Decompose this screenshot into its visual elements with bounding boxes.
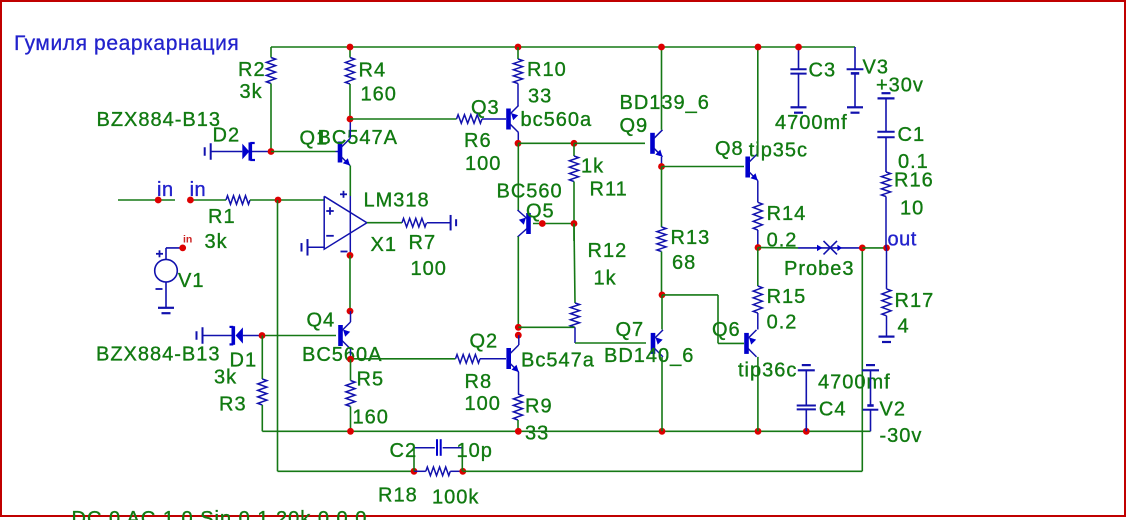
svg-text:160: 160 xyxy=(353,407,389,429)
inverted ground above C1 xyxy=(882,92,891,94)
node R12 wire left junction xyxy=(515,324,522,331)
resistor R15 xyxy=(757,248,759,287)
svg-text:R12: R12 xyxy=(588,240,628,262)
node R14 bottom / R15 top xyxy=(755,244,762,251)
node Q9 emitter / Q8 base xyxy=(658,163,665,170)
wire R6 to Q3 base xyxy=(350,118,457,120)
wire R11 top to Q9 base xyxy=(574,142,645,144)
diode D2 (zener BZX884-B13) xyxy=(210,143,212,160)
svg-text:1k: 1k xyxy=(594,267,617,289)
node D2 cathode / Q1 base xyxy=(268,148,275,155)
wire Q8 collector up to rail xyxy=(757,47,759,154)
node V1 plus xyxy=(179,245,186,252)
svg-text:Q3: Q3 xyxy=(471,97,500,119)
svg-text:4: 4 xyxy=(898,316,910,338)
node C4 bottom xyxy=(803,428,810,435)
wire Q4 collector down xyxy=(350,349,352,359)
transistor Q3 bc560a (PNP) xyxy=(506,109,511,130)
wire Q9 emitter down xyxy=(661,157,663,167)
node out xyxy=(883,245,890,252)
wire Q9 collector up to rail xyxy=(661,47,663,130)
capacitor C2 xyxy=(436,439,438,456)
node Q4 emitter xyxy=(347,308,354,315)
node rail Q9 xyxy=(658,44,665,51)
svg-text:BD140_6: BD140_6 xyxy=(604,345,694,367)
wire R1 to op-amp input junction xyxy=(250,199,324,201)
wire +30 top rail xyxy=(271,46,855,48)
svg-text:R1: R1 xyxy=(208,206,236,228)
wire Q1 emitter to op-amp V+ pin xyxy=(349,166,351,197)
svg-text:0.2: 0.2 xyxy=(767,312,798,334)
wire Q2 emitter to R9 xyxy=(518,372,520,394)
svg-text:R4: R4 xyxy=(359,60,387,82)
svg-text:10: 10 xyxy=(900,198,924,220)
svg-text:BC560A: BC560A xyxy=(302,344,383,366)
svg-text:68: 68 xyxy=(672,252,696,274)
node op-amp V- pin xyxy=(347,252,354,259)
svg-text:BC560: BC560 xyxy=(497,181,563,203)
inverted ground above V2 xyxy=(866,364,875,366)
svg-text:C3: C3 xyxy=(809,60,837,82)
resistor R7 xyxy=(402,218,427,227)
svg-text:R3: R3 xyxy=(219,394,247,416)
node R11 top xyxy=(571,140,578,147)
battery V2 -30v xyxy=(870,370,872,405)
svg-text:R16: R16 xyxy=(894,169,934,191)
svg-text:100k: 100k xyxy=(432,487,479,509)
svg-text:3k: 3k xyxy=(240,81,263,103)
node R13 bottom xyxy=(659,292,666,299)
node R5 bottom xyxy=(347,428,354,435)
node Q7 collector bottom xyxy=(659,428,666,435)
svg-text:D2: D2 xyxy=(213,125,241,147)
wire R13 bottom to Q6 base corner xyxy=(662,294,718,296)
svg-text:R2: R2 xyxy=(238,59,266,81)
wire D2 node to Q1 base xyxy=(271,151,336,153)
wire op-amp output xyxy=(367,222,402,224)
wire feedback row left xyxy=(278,470,415,472)
wire gnd to C1 xyxy=(885,98,887,131)
svg-text:R5: R5 xyxy=(357,369,385,391)
svg-text:BD139_6: BD139_6 xyxy=(620,92,710,114)
svg-text:R18: R18 xyxy=(378,485,418,507)
terminal R7 right xyxy=(450,215,452,231)
svg-text:V1: V1 xyxy=(178,270,204,292)
svg-text:in: in xyxy=(190,179,207,201)
wire Q9 emitter node down to R13 xyxy=(661,167,663,228)
svg-text:in: in xyxy=(157,179,174,201)
ground R17 xyxy=(879,336,895,338)
svg-text:Q2: Q2 xyxy=(470,331,499,353)
svg-text:100: 100 xyxy=(465,393,501,415)
svg-text:160: 160 xyxy=(361,84,397,106)
transistor Q4 BC560A (PNP) xyxy=(338,325,343,346)
svg-text:BC547A: BC547A xyxy=(318,127,399,149)
node rail C3 xyxy=(795,44,802,51)
wire input segment A xyxy=(118,199,175,201)
node R9 bottom xyxy=(515,428,522,435)
svg-text:Bc547a: Bc547a xyxy=(521,350,595,372)
capacitor C1 xyxy=(877,131,894,133)
op-amp X1 LM318 xyxy=(324,196,367,249)
wire R2 to D2 node xyxy=(270,84,272,152)
wire Q2 collector up xyxy=(518,335,520,345)
svg-text:tip36c: tip36c xyxy=(738,359,797,381)
wire D1 node to R3 xyxy=(261,336,263,380)
wire Q5 base xyxy=(533,223,574,225)
svg-text:Q9: Q9 xyxy=(620,115,649,137)
svg-text:C4: C4 xyxy=(819,399,847,421)
node Q3 collector xyxy=(515,140,522,147)
capacitor C2 branch left xyxy=(413,448,415,472)
node Q4 collector xyxy=(347,356,354,363)
op-amp inverting input terminal xyxy=(308,246,325,248)
capacitor C3 xyxy=(798,47,800,69)
svg-text:3k: 3k xyxy=(214,367,237,389)
resistor R10 xyxy=(517,47,519,59)
svg-text:BZX884-B13: BZX884-B13 xyxy=(97,109,222,131)
node input junction xyxy=(275,197,282,204)
capacitor C4 xyxy=(805,370,807,405)
node probe right / feedback column xyxy=(859,245,866,252)
resistor R13 xyxy=(657,227,666,252)
wire input junction down to feedback row xyxy=(277,200,279,471)
ground V1 xyxy=(158,307,174,309)
resistor R1 xyxy=(226,196,250,205)
node R18 left xyxy=(411,468,418,475)
inverted ground above C4 xyxy=(802,364,811,366)
node R18 right xyxy=(459,468,466,475)
resistor R5 xyxy=(350,359,352,380)
wire R12 bottom lead down xyxy=(574,327,576,343)
svg-text:Q4: Q4 xyxy=(307,310,336,332)
svg-text:Гумиля реаркарнация: Гумиля реаркарнация xyxy=(14,32,239,55)
wire rail corner to R2 xyxy=(270,47,272,58)
capacitor C2 branch right xyxy=(461,448,463,472)
resistor R16 xyxy=(881,172,890,197)
svg-text:1k: 1k xyxy=(581,155,604,177)
svg-text:in: in xyxy=(183,234,192,246)
wire input segment B xyxy=(190,199,226,201)
svg-text:R10: R10 xyxy=(527,59,567,81)
wire R3 to bottom rail corner xyxy=(261,405,263,431)
svg-text:Q8: Q8 xyxy=(715,138,744,160)
wire probe to out node xyxy=(862,247,886,249)
wire R14 node to probe xyxy=(758,247,798,249)
wire Q3 collector to R11 top node xyxy=(518,142,574,144)
svg-text:Q7: Q7 xyxy=(616,319,645,341)
probe Probe3 xyxy=(798,247,862,249)
node D1 / R3 / Q4 base xyxy=(259,332,266,339)
node rail R4 xyxy=(347,44,354,51)
node in (second) xyxy=(187,197,194,204)
svg-text:R11: R11 xyxy=(590,179,628,201)
svg-text:-30v: -30v xyxy=(880,425,923,447)
svg-text:R7: R7 xyxy=(409,232,437,254)
svg-text:R8: R8 xyxy=(465,371,493,393)
wire Q1 collector to R4 node xyxy=(349,119,351,139)
resistor R18 xyxy=(414,470,426,472)
svg-text:33: 33 xyxy=(528,86,552,108)
battery V3 +30v xyxy=(854,47,856,69)
node Q6 collector bottom xyxy=(755,428,762,435)
transistor Q5 BC560 (PNP, mirrored) xyxy=(526,213,531,234)
resistor R2 xyxy=(266,58,275,84)
svg-text:4700mf: 4700mf xyxy=(775,112,848,134)
diode D1 (zener BZX884-B13) xyxy=(202,327,204,344)
transistor Q2 Bc547a (NPN) xyxy=(506,348,511,369)
node in (first) xyxy=(155,197,162,204)
node R4 bottom xyxy=(347,116,354,123)
svg-text:Probe3: Probe3 xyxy=(784,258,855,280)
resistor R9 xyxy=(513,394,522,420)
svg-text:R13: R13 xyxy=(671,227,711,249)
svg-text:R17: R17 xyxy=(895,290,935,312)
wire V1 to ground xyxy=(165,282,167,308)
transistor Q1 BC547A xyxy=(336,151,339,153)
svg-text:R15: R15 xyxy=(767,286,807,308)
wire Q3 col node down to Q5 emitter xyxy=(517,143,519,210)
wire Q7 collector down to rail xyxy=(661,357,663,431)
wire Q5 collector down xyxy=(517,237,519,328)
transistor Q6 tip36c (PNP) xyxy=(744,333,749,354)
svg-text:100: 100 xyxy=(465,153,501,175)
transistor Q8 tip35c (NPN) xyxy=(745,157,750,178)
node Q5 base xyxy=(539,220,546,227)
svg-text:100: 100 xyxy=(411,258,447,280)
node R11 bottom / R12 top xyxy=(571,220,578,227)
wire R12 to Q7 base xyxy=(575,342,646,344)
svg-text:Q6: Q6 xyxy=(712,319,741,341)
wire R12 bottom to Q2 collector node xyxy=(518,326,575,328)
node Q2 collector xyxy=(515,332,522,339)
resistor R17 xyxy=(886,248,888,289)
resistor R14 xyxy=(753,202,762,230)
wire Q8 emitter to R14 xyxy=(757,181,759,203)
svg-text:out: out xyxy=(888,229,917,251)
resistor R11 xyxy=(573,143,575,156)
svg-text:3k: 3k xyxy=(205,231,228,253)
wire Q4 emitter diag up xyxy=(350,311,352,322)
wire feedback row right xyxy=(463,470,863,472)
svg-text:LM318: LM318 xyxy=(364,190,430,212)
wire Q3 collector down xyxy=(517,133,519,144)
svg-text:R6: R6 xyxy=(464,130,492,152)
wire Q9 emitter node to Q8 base xyxy=(662,166,745,168)
wire Q7 emitter up xyxy=(661,295,663,330)
svg-text:bc560a: bc560a xyxy=(521,109,593,131)
wire Q4 collector to R8 xyxy=(351,358,456,360)
svg-text:C2: C2 xyxy=(390,440,418,462)
resistor R4 xyxy=(349,47,351,58)
resistor R6 xyxy=(457,115,483,124)
wire op-amp V- to Q4 emitter xyxy=(349,255,351,311)
wire bottom rail xyxy=(262,430,870,432)
node rail Q8 xyxy=(755,44,762,51)
svg-text:R14: R14 xyxy=(767,203,807,225)
wire D1 node to Q4 base xyxy=(262,335,336,337)
svg-text:4700mf: 4700mf xyxy=(818,371,891,393)
svg-text:33: 33 xyxy=(525,422,549,444)
voltage source V1 xyxy=(155,259,178,282)
svg-text:DC 0 AC 1 0 Sin 0 1 20k 0 0 0: DC 0 AC 1 0 Sin 0 1 20k 0 0 0 xyxy=(72,508,368,520)
transistor Q9 BD139_6 (NPN) xyxy=(650,133,655,154)
svg-text:C1: C1 xyxy=(898,124,926,146)
svg-text:V2: V2 xyxy=(880,399,906,421)
transistor Q7 BD140_6 (PNP) xyxy=(651,333,656,354)
svg-text:Q5: Q5 xyxy=(526,201,555,223)
svg-text:R9: R9 xyxy=(525,396,553,418)
resistor R3 xyxy=(258,379,267,405)
resistor R12 xyxy=(573,224,575,242)
wire Q6 collector down to rail xyxy=(757,357,759,431)
resistor R8 xyxy=(456,355,481,364)
node rail R10 xyxy=(515,44,522,51)
svg-text:X1: X1 xyxy=(371,234,397,256)
svg-text:BZX884-B13: BZX884-B13 xyxy=(96,344,221,366)
wire out column down to feedback row xyxy=(861,248,863,471)
wire rail right corner down xyxy=(854,46,856,48)
